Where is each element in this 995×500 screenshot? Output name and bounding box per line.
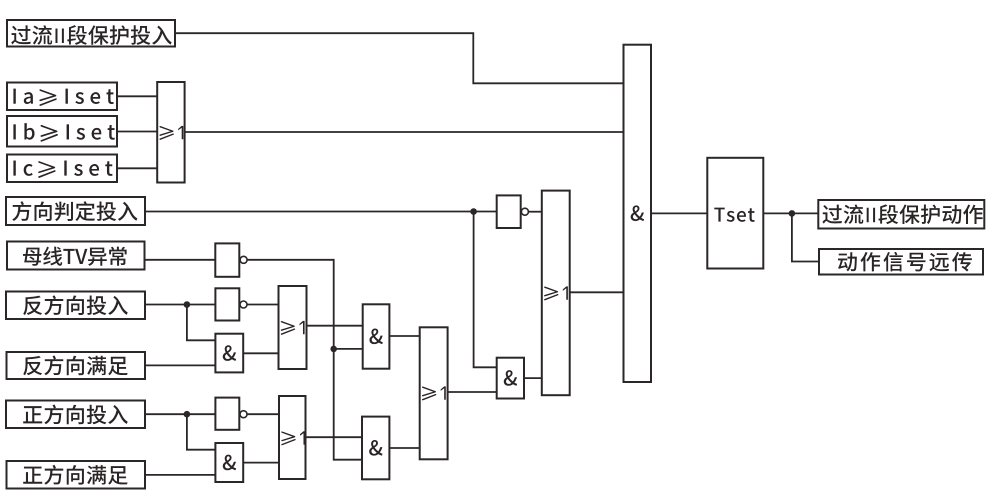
output box 动作信号远传 bbox=[819, 249, 983, 275]
OR gate OR2 (反方向) bbox=[279, 286, 307, 369]
wire: Ic to OR1 bbox=[117, 167, 157, 169]
wire: Ib to OR1 bbox=[117, 131, 157, 133]
wire: Tset out to 过流II段保护动作 bbox=[763, 212, 818, 214]
wire: 反方向投入 to NOT N3 bbox=[145, 304, 215, 306]
wire: 母线TV异常 to NOT N1 bbox=[145, 259, 216, 261]
label Tset bbox=[714, 208, 754, 222]
junction on TV line bbox=[330, 346, 337, 353]
wire: NOT N4 out to OR5 bbox=[247, 413, 279, 415]
label 反方向投入 bbox=[23, 295, 128, 315]
wire: branch down to 动作信号远传 bbox=[792, 213, 819, 261]
label 过流II段保护动作 bbox=[822, 204, 982, 224]
input box 母线TV异常 bbox=[7, 242, 145, 270]
wire: 方向判定投入 to NOT N2 bbox=[145, 211, 497, 213]
NOT N4 bubble bbox=[240, 411, 247, 418]
wire: 正方向投入 to NOT N4 bbox=[145, 413, 215, 415]
NOT gate N1 (母线TV异常) bbox=[215, 243, 239, 276]
wire: main AND out to Tset bbox=[651, 212, 707, 214]
text >=1 of OR4 bbox=[423, 386, 446, 399]
OR gate OR4 bbox=[420, 327, 448, 459]
label 过流II段保护投入 bbox=[11, 25, 171, 45]
label 反方向满足 bbox=[23, 356, 128, 376]
wire: AND A7 out to OR5 bbox=[243, 462, 279, 464]
NOT gate N2 (方向判定) bbox=[497, 195, 521, 228]
input box 方向判定投入 bbox=[6, 197, 145, 225]
text & of A7 bbox=[223, 455, 236, 471]
NOT N2 bubble bbox=[521, 208, 528, 215]
text & of A5 bbox=[369, 440, 382, 456]
wire: 反方向满足 to AND A6 bbox=[145, 364, 215, 366]
AND gate A3 bbox=[497, 358, 524, 399]
input box 正方向投入 bbox=[6, 401, 145, 429]
wire: branch down to AND A3 bbox=[474, 212, 497, 368]
wire: OR4 out to AND A3 bbox=[448, 391, 497, 393]
label 方向判定投入 bbox=[12, 201, 137, 221]
input box Ia>=Iset bbox=[7, 83, 117, 111]
wire: TV branch to AND A4 bbox=[334, 348, 363, 350]
wire: NOT N1 out down to AND A5 bbox=[247, 260, 362, 460]
junction on 方向判定投入 line bbox=[470, 208, 477, 215]
text >=1 of OR2 bbox=[281, 321, 304, 334]
input box Ic>=Iset bbox=[7, 155, 117, 183]
text >=1 of OR3 bbox=[545, 286, 568, 299]
wire: AND A6 out to OR2 bbox=[243, 352, 278, 354]
AND gate main bbox=[624, 45, 652, 382]
NOT N3 bubble bbox=[240, 301, 247, 308]
input box 过流II段保护投入 bbox=[7, 20, 175, 47]
label 母线TV异常 bbox=[23, 247, 127, 266]
junction after Tset bbox=[789, 210, 796, 217]
NOT gate N3 (反方向投入) bbox=[215, 288, 239, 320]
text & of main AND bbox=[631, 205, 644, 221]
OR gate OR3 bbox=[542, 191, 570, 396]
wire: OR1 to main AND bbox=[185, 131, 624, 133]
output box 过流II段保护动作 bbox=[818, 200, 984, 229]
text & of A6 bbox=[223, 345, 236, 361]
OR gate OR5 (正方向) bbox=[279, 396, 306, 479]
NOT gate N4 (正方向投入) bbox=[215, 398, 239, 430]
wire: NOT N3 out to OR2 bbox=[247, 304, 279, 306]
AND gate A5 bbox=[362, 417, 389, 480]
input box 反方向投入 bbox=[6, 292, 145, 320]
wire: Ia to OR1 bbox=[117, 95, 157, 97]
wire: OR5 out to AND A5 bbox=[306, 436, 363, 438]
OR gate OR1 (Ia Ib Ic) bbox=[157, 82, 184, 183]
wire: NOT N2 out to OR3 bbox=[528, 211, 542, 213]
NOT N1 bubble bbox=[240, 256, 247, 263]
label 正方向投入 bbox=[23, 405, 128, 425]
wire: AND A4 out to OR4 bbox=[389, 335, 419, 337]
junction on 正方向投入 line bbox=[184, 411, 191, 418]
wire: 过流II段保护投入 to main AND bbox=[175, 33, 624, 83]
wire: AND A5 out to OR4 bbox=[389, 447, 419, 449]
wire: branch down to AND A6 bbox=[187, 305, 216, 341]
wire: branch down to AND A7 bbox=[187, 414, 216, 450]
input box 正方向满足 bbox=[7, 461, 146, 489]
text & of A4 bbox=[369, 329, 382, 345]
timer box Tset bbox=[707, 158, 763, 269]
AND gate A4 bbox=[363, 304, 390, 368]
label Ia>=Iset bbox=[13, 89, 113, 106]
AND gate A7 (正方向) bbox=[215, 443, 243, 482]
label 正方向满足 bbox=[23, 465, 128, 485]
text & of A3 bbox=[504, 370, 517, 386]
AND gate A6 (反方向) bbox=[215, 334, 243, 373]
wire: AND A3 out to OR3 bbox=[524, 377, 542, 379]
text >=1 of OR5 bbox=[282, 431, 305, 444]
junction on 反方向投入 line bbox=[184, 301, 191, 308]
label 动作信号远传 bbox=[838, 252, 972, 272]
label Ib>=Iset bbox=[13, 123, 114, 141]
wire: OR2 out to AND A4 bbox=[307, 325, 363, 327]
wire: OR3 out to main AND bbox=[570, 291, 624, 293]
label Ic>=Iset bbox=[13, 161, 112, 178]
input box 反方向满足 bbox=[7, 352, 146, 379]
input box Ib>=Iset bbox=[7, 116, 117, 147]
text >=1 of OR1 bbox=[160, 126, 183, 139]
wire: 正方向满足 to AND A7 bbox=[145, 474, 215, 476]
